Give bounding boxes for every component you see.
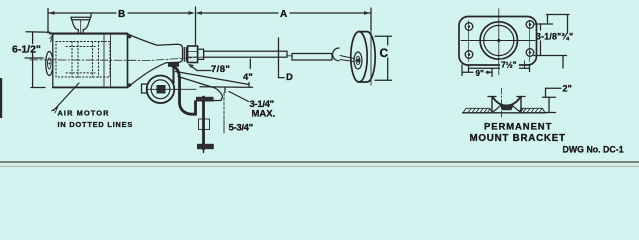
- svg-text:PERMANENT: PERMANENT: [484, 122, 552, 133]
- mount bracket top view: [459, 9, 537, 76]
- body screws: [128, 35, 131, 38]
- dimension 4 tick: [241, 59, 253, 87]
- oil cup on top: [71, 13, 91, 34]
- motor centerline: [30, 57, 204, 60]
- svg-text:DWG No. DC-1: DWG No. DC-1: [563, 145, 624, 155]
- svg-text:C: C: [380, 46, 389, 60]
- leader 3-1/4 max: [229, 92, 249, 102]
- motor body: [50, 34, 128, 88]
- svg-text:B: B: [118, 9, 125, 20]
- left hatched pad: [463, 108, 492, 113]
- label B: [117, 9, 128, 18]
- 7/8 leader: [189, 64, 212, 71]
- leader air motor: [52, 83, 80, 113]
- air motor dashed outline: [56, 42, 110, 78]
- svg-text:7½": 7½": [501, 59, 517, 69]
- dimension C: [375, 36, 392, 80]
- bottom border line: [0, 162, 639, 168]
- clamp knob circle: [142, 76, 197, 104]
- dimension 6-1/2 vertical: [25, 32, 54, 88]
- saddle center: [488, 88, 525, 118]
- right hatched pad: [519, 108, 545, 113]
- dimension 9 under bracket: [462, 65, 492, 77]
- svg-text:IN DOTTED LINES: IN DOTTED LINES: [58, 120, 134, 129]
- shaft rod 2: [292, 54, 332, 61]
- dimension 3-1/8 right side: [534, 15, 569, 69]
- svg-text:3-1/8"¾": 3-1/8"¾": [536, 32, 573, 42]
- paper background: [0, 0, 639, 168]
- dimension A line: [196, 7, 372, 45]
- horn taper: [128, 34, 183, 88]
- clamp strap bolt: [168, 63, 179, 83]
- dimension 2 side view: [543, 88, 562, 112]
- svg-text:MOUNT BRACKET: MOUNT BRACKET: [470, 133, 566, 144]
- svg-text:A: A: [280, 9, 287, 20]
- dimension 7-1/2 under bracket: [469, 61, 530, 72]
- motor left end cap: [46, 52, 53, 76]
- shaft gland nut stack: [184, 46, 203, 63]
- shaft tip lines: [340, 56, 354, 62]
- svg-text:D: D: [286, 72, 293, 83]
- clamp screw: [196, 97, 214, 153]
- shaft hook fitting: [333, 48, 339, 61]
- bracket side view base: [463, 112, 546, 114]
- dimension B line: [48, 9, 195, 34]
- bracket bolt holes: [465, 21, 534, 62]
- svg-text:6-1/2": 6-1/2": [12, 43, 41, 55]
- fan disc: [351, 30, 375, 85]
- svg-text:2": 2": [563, 84, 572, 94]
- shaft rod 1: [204, 51, 287, 57]
- clamp arm: [176, 72, 250, 101]
- label A: [279, 9, 290, 18]
- svg-text:5-3/4": 5-3/4": [229, 123, 253, 134]
- svg-text:AIR MOTOR: AIR MOTOR: [58, 108, 110, 117]
- dimension 5-3/4 extension: [223, 93, 225, 133]
- left scan edge mark: [0, 78, 2, 118]
- label 7-1/2: [500, 60, 519, 70]
- dimension D bracket: [279, 38, 285, 78]
- clamp frame: [173, 67, 196, 115]
- svg-text:MAX.: MAX.: [252, 109, 276, 120]
- svg-text:4": 4": [243, 72, 253, 83]
- svg-text:7/8": 7/8": [211, 64, 230, 75]
- svg-text:9": 9": [476, 69, 484, 78]
